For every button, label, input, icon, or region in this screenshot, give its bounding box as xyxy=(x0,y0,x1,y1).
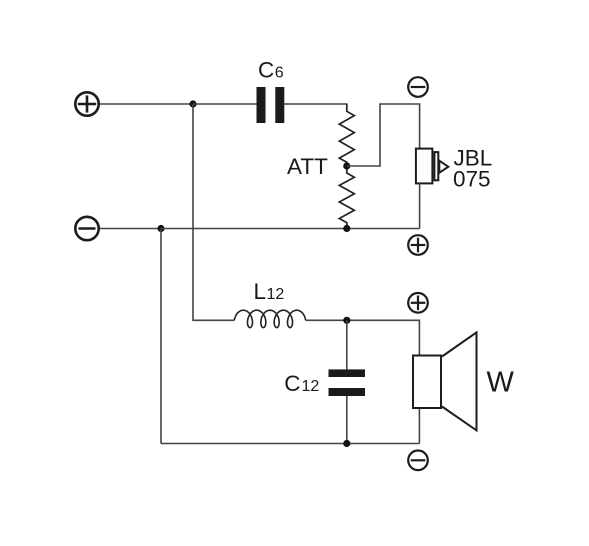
wire tweeter bottom to rail xyxy=(419,183,421,228)
capacitor C6 xyxy=(257,87,285,123)
svg-text:6: 6 xyxy=(275,65,284,82)
resistor ATT upper section xyxy=(339,104,354,167)
svg-text:L: L xyxy=(254,279,267,304)
tweeter JBL 075 xyxy=(416,149,448,184)
svg-text:ATT: ATT xyxy=(287,154,328,179)
wire input+ to node A xyxy=(100,103,193,105)
node A junction dot xyxy=(189,100,196,107)
svg-text:W: W xyxy=(487,367,515,399)
node C12 bottom dot xyxy=(343,440,350,447)
node C12 top dot xyxy=(343,317,350,324)
resistor ATT lower section xyxy=(339,166,354,229)
svg-text:12: 12 xyxy=(302,378,320,395)
wire C6 to resistor top xyxy=(284,103,347,105)
svg-text:C: C xyxy=(258,58,274,83)
node tap dot xyxy=(343,162,350,169)
wire C12 top xyxy=(346,320,348,369)
svg-text:12: 12 xyxy=(267,286,285,303)
wire input- to node B xyxy=(100,228,161,230)
node B junction dot xyxy=(157,225,164,232)
wire woofer bottom to rail xyxy=(418,409,420,444)
terminal + tweeter xyxy=(408,235,428,255)
capacitor C12 xyxy=(329,369,366,396)
wire C12 bottom xyxy=(346,396,348,444)
node resistor bottom dot xyxy=(343,225,350,232)
inductor L12 xyxy=(234,310,305,327)
wire minus rail to tweeter xyxy=(161,228,420,230)
input terminal + xyxy=(75,92,98,115)
svg-text:075: 075 xyxy=(453,167,491,192)
wire node A to C6 xyxy=(193,103,257,105)
svg-text:C: C xyxy=(284,371,300,396)
wire left vertical minus feed xyxy=(160,229,162,444)
woofer W xyxy=(413,332,477,430)
wire plus feed down to L12 xyxy=(193,104,234,320)
wire tap to tweeter top xyxy=(347,104,420,166)
wire L12 to woofer top xyxy=(306,320,420,355)
terminal + woofer xyxy=(408,293,428,313)
terminal - woofer xyxy=(408,451,428,471)
input terminal - xyxy=(75,217,98,240)
wire bottom rail xyxy=(161,443,419,445)
terminal - tweeter xyxy=(408,77,428,97)
